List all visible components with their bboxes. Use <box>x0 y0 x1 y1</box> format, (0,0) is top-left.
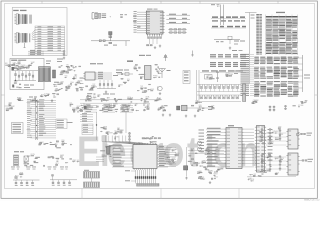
dark part right of RF IC <box>53 70 56 78</box>
svg-text:CSN: CSN <box>253 100 256 102</box>
svg-text:RSTN: RSTN <box>275 157 279 159</box>
keypad vchain <box>217 70 219 82</box>
bottom cluster lowerleft A <box>40 142 42 144</box>
svg-text:D0: D0 <box>83 104 85 106</box>
memory right rows <box>244 128 254 130</box>
table header text <box>276 12 285 13</box>
mid ladder rows <box>82 124 93 135</box>
vertical rail center-bottom <box>186 147 188 176</box>
svg-text:PWM0: PWM0 <box>75 83 80 85</box>
table right wires <box>302 55 304 92</box>
svg-text:MICP: MICP <box>198 176 202 178</box>
svg-text:PWM0: PWM0 <box>21 65 26 67</box>
CPU right rows <box>158 145 168 147</box>
center row dark part <box>177 106 180 110</box>
ladder taps <box>31 100 36 102</box>
fanout side labels <box>131 170 136 172</box>
audio wiring 1 <box>266 132 286 134</box>
parts left of N305 <box>135 64 137 65</box>
svg-text:TXP: TXP <box>67 86 70 88</box>
memory pin text inside <box>227 127 230 130</box>
labels under bottom-left row <box>11 166 15 169</box>
speaker parts below rail 1 <box>15 180 17 182</box>
part X center <box>165 54 167 61</box>
border zone ticks bottom <box>81 189 83 199</box>
vertical feeders <box>96 112 98 140</box>
connector X102 <box>84 182 100 188</box>
connector J1 <box>16 14 18 25</box>
rows left edge of CPU area <box>96 156 104 158</box>
parts right of RF IC <box>61 65 63 67</box>
keypad row 1 <box>197 84 241 86</box>
bus wire to table <box>249 13 251 85</box>
svg-text:PWM0: PWM0 <box>73 109 78 111</box>
border zone ticks sides <box>1 94 5 96</box>
note box <box>12 123 24 134</box>
RF left column parts <box>12 64 14 66</box>
net ladder rows <box>35 27 65 29</box>
svg-text:SCL: SCL <box>127 79 130 81</box>
svg-text:MICP: MICP <box>77 106 81 108</box>
junction wire <box>121 73 123 75</box>
svg-text:SCL: SCL <box>143 103 146 105</box>
IC N305 <box>145 66 152 80</box>
parts right of junction <box>118 85 120 88</box>
svg-text:INT1: INT1 <box>147 105 150 107</box>
RF vertical resistor row <box>15 71 17 81</box>
connector X2 (top middle) <box>92 13 94 19</box>
svg-text:SCL: SCL <box>77 160 80 162</box>
wires U2 left pins <box>137 11 145 13</box>
sheet inner border <box>5 4 315 189</box>
labels far left of memory <box>199 129 205 132</box>
svg-text:VRF: VRF <box>18 98 21 100</box>
caps row below U2 <box>148 37 150 39</box>
parts on mid bus <box>87 98 90 100</box>
svg-text:D200: D200 <box>138 142 142 144</box>
table column rules <box>265 15 267 56</box>
keypad header band <box>202 70 209 71</box>
microphone symbol <box>158 86 162 90</box>
small parts below U2 <box>147 45 149 46</box>
svg-text:RXN: RXN <box>41 95 44 97</box>
RF IC N101 hatched <box>39 67 51 82</box>
svg-text:TXP: TXP <box>140 86 143 88</box>
svg-text:KBC0: KBC0 <box>196 101 200 103</box>
svg-text:MICP: MICP <box>172 158 176 160</box>
mid band label ladders <box>84 105 97 107</box>
svg-text:INT1: INT1 <box>191 149 194 151</box>
svg-text:CLK32K: CLK32K <box>117 130 123 132</box>
parts right cluster mid <box>80 109 83 111</box>
crystal X1 circuit <box>91 40 119 42</box>
svg-text:GSM-2 sch v1.2: GSM-2 sch v1.2 <box>304 200 320 201</box>
bottom-left circuit parts B <box>77 161 80 163</box>
mid vchain <box>129 132 131 144</box>
SIM cluster <box>106 133 108 134</box>
svg-text:KBC0: KBC0 <box>73 76 77 78</box>
connector X101 <box>84 172 100 179</box>
svg-text:MICP: MICP <box>13 63 17 65</box>
resistor row above CPU right <box>142 138 145 139</box>
audio amp N601 <box>288 129 298 149</box>
svg-text:TXP: TXP <box>203 161 206 163</box>
LCD connector <box>137 184 160 187</box>
keypad left box <box>183 71 190 84</box>
svg-text:RXN: RXN <box>102 154 105 156</box>
fuse row table r1 <box>212 16 218 18</box>
dark module left of CPU <box>107 147 111 154</box>
transistors left of memory <box>198 141 202 145</box>
RF center wire <box>14 70 38 72</box>
parts right of N305 <box>158 67 159 68</box>
svg-text:MOSI: MOSI <box>69 104 73 106</box>
RF top parts <box>28 66 29 67</box>
svg-text:CLK32K: CLK32K <box>91 86 97 88</box>
net ladder box <box>35 26 65 54</box>
keypad row 2 terminator <box>243 94 246 102</box>
svg-text:SCL: SCL <box>128 104 131 106</box>
parts mid right <box>152 141 157 142</box>
cluster near right border top <box>302 102 303 103</box>
crystal body <box>109 32 112 35</box>
svg-text:KBR1: KBR1 <box>150 89 154 91</box>
cluster below RF box <box>52 93 55 94</box>
center-bottom mid cluster <box>202 162 203 164</box>
labels right of U301 <box>116 70 123 71</box>
svg-text:WEN: WEN <box>220 167 224 169</box>
svg-text:WEN: WEN <box>168 160 172 162</box>
center row IC <box>182 105 188 111</box>
svg-text:INT1: INT1 <box>56 163 59 165</box>
svg-text:KBC0: KBC0 <box>127 97 131 99</box>
resistor row right of U2 <box>168 28 187 30</box>
CPU left rows <box>112 145 132 147</box>
svg-text:KBC0: KBC0 <box>214 177 218 179</box>
svg-text:CSN: CSN <box>304 101 307 103</box>
svg-text:RSTN: RSTN <box>115 136 119 138</box>
transistor dark blob <box>184 166 188 170</box>
net rows right of U2 <box>166 14 190 16</box>
part above RF block right <box>63 50 65 56</box>
bottom cluster lowerleft B <box>70 144 72 146</box>
watermark <box>77 129 259 176</box>
svg-text:VCORE: VCORE <box>172 149 177 151</box>
pin table upper rows <box>266 19 271 20</box>
bottom-left circuit parts A <box>27 163 29 164</box>
fan wires into CPU top <box>102 136 135 145</box>
svg-text:PWM0: PWM0 <box>78 80 83 82</box>
X401 internal pin stripes <box>257 126 260 129</box>
svg-text:D1: D1 <box>118 127 120 129</box>
svg-text:TXP: TXP <box>56 159 59 161</box>
center row labels <box>208 106 213 107</box>
audio parts group 2 <box>275 173 277 174</box>
svg-text:D0: D0 <box>267 169 269 171</box>
svg-text:PWM0: PWM0 <box>209 171 214 173</box>
center-bottom rows left <box>158 147 176 149</box>
svg-text:SCL: SCL <box>93 96 96 98</box>
svg-text:KBC0: KBC0 <box>280 158 284 160</box>
memory IC D301 <box>228 125 234 126</box>
resistor pack RN1 vertical bars <box>18 14 19 24</box>
U301 left parts <box>90 89 92 90</box>
center-bottom wires right <box>188 150 224 152</box>
wires connector J2 to ladder <box>32 30 35 34</box>
table left net labels <box>250 54 254 56</box>
fuse row table r2 <box>212 20 218 21</box>
U301 right rows <box>97 72 112 74</box>
CPU D200 <box>133 145 157 169</box>
table header dark row <box>266 16 272 18</box>
N601 pin marks <box>289 130 292 133</box>
keypad row 2 <box>197 94 241 96</box>
labels box right of ladder <box>56 119 67 129</box>
parts near left border <box>8 65 11 67</box>
ground center-bottom <box>186 177 188 178</box>
cluster top of ladder <box>18 99 20 100</box>
cluster left of caps <box>252 102 254 103</box>
svg-text:KBR1: KBR1 <box>207 75 211 77</box>
connector J2 <box>16 33 18 43</box>
CPU left parts <box>106 154 111 155</box>
speaker out 2 <box>298 160 302 162</box>
CPU fanout resistors <box>135 170 137 176</box>
RF bottom-left parts <box>12 86 14 88</box>
svg-text:D1: D1 <box>35 97 37 99</box>
svg-text:VRF: VRF <box>147 107 150 109</box>
antenna symbol <box>161 69 163 79</box>
memory left rows <box>206 128 224 130</box>
small parts right of X2 <box>120 14 123 15</box>
svg-text:INT1: INT1 <box>144 99 147 101</box>
mid rows to left <box>80 114 93 116</box>
pin table lower rows <box>254 57 258 58</box>
speaker out 1 <box>296 133 299 136</box>
keypad rails vertical <box>196 70 198 100</box>
bottom clusters under memory <box>200 178 202 179</box>
mid band second row parts <box>83 105 86 107</box>
labels right of ladder 2 <box>67 122 73 123</box>
bottom band parts U301 <box>91 97 93 99</box>
svg-text:WEN: WEN <box>264 171 268 173</box>
charger input cluster <box>214 39 240 41</box>
svg-text:KBC0: KBC0 <box>123 109 127 111</box>
resistor pack RN2 vertical bars <box>18 33 19 43</box>
keypad misc parts <box>226 74 228 75</box>
speaker rail 2 <box>50 179 77 181</box>
svg-text:RSTN: RSTN <box>31 154 35 156</box>
labels above RF IC <box>46 61 51 62</box>
audio wiring 2 <box>266 156 286 158</box>
vertical bus ladder rails <box>35 100 37 141</box>
wire J2 stub down <box>24 43 26 48</box>
svg-text:D1: D1 <box>114 104 116 106</box>
mid bus wires <box>80 99 162 101</box>
IC U301 <box>85 72 95 80</box>
parts below N305 <box>141 88 143 89</box>
svg-text:VCORE: VCORE <box>85 98 90 100</box>
block A outline (I/O connector section) <box>12 8 67 56</box>
svg-text:VRF: VRF <box>217 168 220 170</box>
audio section bottom rail <box>247 176 296 178</box>
svg-text:VCORE: VCORE <box>298 105 303 107</box>
parts under X401 <box>216 171 218 173</box>
connector X103 <box>14 155 19 166</box>
pin name text inside U2 <box>147 11 150 14</box>
label above U2 <box>147 9 153 10</box>
parts below right of RF box <box>53 84 57 86</box>
rows right of X401 <box>268 128 273 131</box>
svg-text:WEN: WEN <box>275 131 279 133</box>
center row left parts <box>162 106 165 108</box>
audio amp N602 <box>288 153 298 175</box>
ground mid <box>192 51 194 54</box>
RF section box <box>10 59 44 90</box>
svg-text:D0: D0 <box>53 95 55 97</box>
keypad mid cluster <box>205 75 213 80</box>
U301 title <box>90 63 96 64</box>
net labels above RF block <box>28 50 44 52</box>
IC U2 (power management) <box>146 11 163 34</box>
border zone ticks top <box>41 1 43 4</box>
svg-text:PWM0: PWM0 <box>108 109 113 111</box>
wires below caps <box>149 39 151 45</box>
svg-text:VCORE: VCORE <box>107 132 112 134</box>
svg-text:D0: D0 <box>115 131 117 133</box>
block A title <box>13 10 19 11</box>
parts left of U2 <box>134 16 137 17</box>
U2 bottom stubs <box>146 34 148 37</box>
RF bottom text <box>24 85 29 86</box>
U301 caps row <box>99 80 101 89</box>
section title bottom-left <box>14 151 19 152</box>
svg-text:RXN: RXN <box>61 81 64 83</box>
N602 pin marks <box>289 154 292 157</box>
svg-text:KBR1: KBR1 <box>270 142 274 144</box>
keypad row 1 terminator <box>243 84 246 92</box>
stub between connectors <box>91 178 93 182</box>
audio caps top <box>269 106 271 112</box>
center-bottom parts column <box>175 154 177 156</box>
left border parts <box>11 107 13 108</box>
board connector X401 <box>257 126 265 173</box>
transformer T1 <box>24 156 28 162</box>
table left pad columns <box>256 14 259 15</box>
wire crystal to PMU <box>119 40 130 42</box>
charger title <box>139 55 145 56</box>
audio parts group 1 <box>260 131 263 133</box>
VBAT rail wires <box>220 5 222 26</box>
svg-text:PWM0: PWM0 <box>153 76 158 78</box>
speaker parts below rail 2 <box>52 180 54 182</box>
register row group 2 <box>210 62 216 63</box>
keypad bottom cluster <box>199 101 202 103</box>
fuse row table r3 <box>212 26 218 28</box>
svg-text:KBC0: KBC0 <box>205 152 209 154</box>
center row chain <box>187 107 215 109</box>
register row group 1 <box>210 54 216 55</box>
speaker rail 1 <box>13 179 40 181</box>
